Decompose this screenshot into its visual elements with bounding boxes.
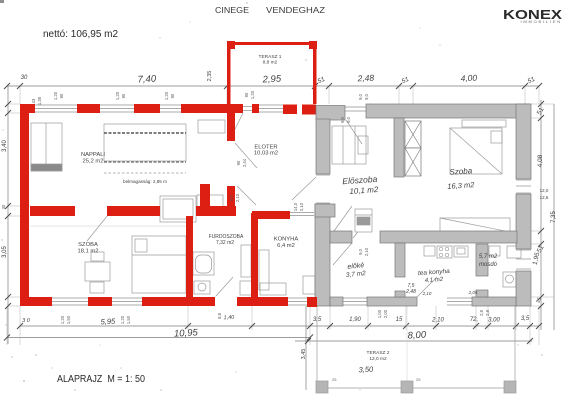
svg-text:IMMOBILIEN: IMMOBILIEN <box>520 19 562 24</box>
svg-text:9,0: 9,0 <box>358 248 363 254</box>
svg-text:1,20: 1,20 <box>250 90 255 99</box>
svg-text:10,03 m2: 10,03 m2 <box>254 151 278 157</box>
svg-text:2,10: 2,10 <box>431 318 444 324</box>
svg-text:1,50: 1,50 <box>126 315 131 324</box>
svg-text:7,35: 7,35 <box>551 211 557 223</box>
svg-text:8,8 m2: 8,8 m2 <box>263 60 278 66</box>
svg-text:3,5: 3,5 <box>521 316 530 322</box>
svg-text:9,0: 9,0 <box>358 93 363 99</box>
svg-text:18,1 m2: 18,1 m2 <box>78 249 99 255</box>
svg-text:1,20: 1,20 <box>60 315 65 324</box>
svg-text:1,50: 1,50 <box>66 315 71 324</box>
svg-text:SZOBA: SZOBA <box>78 242 98 248</box>
svg-text:2,8: 2,8 <box>485 309 490 315</box>
svg-text:90: 90 <box>244 92 249 97</box>
svg-text:9,0: 9,0 <box>229 194 234 200</box>
svg-text:2,48: 2,48 <box>356 73 374 84</box>
svg-text:4,08: 4,08 <box>537 154 544 167</box>
svg-text:1,00: 1,00 <box>377 309 382 318</box>
svg-text:VENDEGHAZ: VENDEGHAZ <box>266 6 325 15</box>
svg-text:1,20: 1,20 <box>164 91 169 100</box>
svg-text:4,00: 4,00 <box>460 73 477 84</box>
svg-text:2,35: 2,35 <box>207 71 213 82</box>
svg-text:CINEGE: CINEGE <box>215 6 249 15</box>
svg-text:2,10: 2,10 <box>422 291 432 296</box>
svg-text:TERASZ 2: TERASZ 2 <box>367 350 390 356</box>
svg-text:NAPPALI: NAPPALI <box>81 152 105 158</box>
svg-text:90: 90 <box>236 160 241 165</box>
svg-text:3,45: 3,45 <box>301 349 307 360</box>
svg-text:5,95: 5,95 <box>100 317 116 327</box>
svg-text:6,4 m2: 6,4 m2 <box>277 243 295 249</box>
svg-text:belmagasság: 2,85 m: belmagasság: 2,85 m <box>123 179 167 184</box>
svg-text:90: 90 <box>121 93 126 98</box>
svg-text:3,5: 3,5 <box>313 317 322 323</box>
svg-text:12,0 m2: 12,0 m2 <box>369 356 387 362</box>
svg-text:9,0: 9,0 <box>346 116 351 122</box>
svg-text:72,: 72, <box>470 317 478 323</box>
svg-text:12,0: 12,0 <box>540 188 549 193</box>
svg-text:1,20: 1,20 <box>120 315 125 324</box>
svg-text:2,8: 2,8 <box>479 309 484 315</box>
svg-text:25: 25 <box>416 377 421 382</box>
svg-text:2,10: 2,10 <box>235 193 240 202</box>
svg-text:ALAPRAJZ M = 1: 50: ALAPRAJZ M = 1: 50 <box>57 374 145 385</box>
svg-text:2,00: 2,00 <box>383 309 388 318</box>
svg-text:14,0: 14,0 <box>293 202 298 211</box>
svg-text:90: 90 <box>170 93 175 98</box>
svg-text:Szoba: Szoba <box>449 166 473 177</box>
svg-text:1,20: 1,20 <box>115 91 120 100</box>
svg-text:2,48: 2,48 <box>405 289 416 295</box>
svg-text:43: 43 <box>31 98 36 103</box>
svg-text:12,6: 12,6 <box>540 195 549 200</box>
svg-text:9,0: 9,0 <box>364 93 369 99</box>
svg-text:8,00: 8,00 <box>407 329 427 341</box>
svg-text:3 0: 3 0 <box>22 318 31 324</box>
svg-text:1,90: 1,90 <box>349 317 361 323</box>
svg-text:90: 90 <box>59 93 64 98</box>
svg-text:15: 15 <box>396 317 403 323</box>
svg-text:2,95: 2,95 <box>261 73 282 85</box>
svg-text:1,20: 1,20 <box>53 91 58 100</box>
svg-text:3,50: 3,50 <box>358 365 374 375</box>
svg-text:25: 25 <box>332 377 337 382</box>
svg-text:KONYHA: KONYHA <box>274 237 299 243</box>
svg-text:3,40: 3,40 <box>2 140 8 152</box>
svg-text:10,95: 10,95 <box>174 327 199 339</box>
svg-text:nettó: 106,95 m2: nettó: 106,95 m2 <box>43 29 118 40</box>
svg-text:30: 30 <box>21 75 28 81</box>
svg-text:3,00: 3,00 <box>488 318 500 324</box>
svg-text:TERASZ 1: TERASZ 1 <box>259 54 282 60</box>
svg-text:2,05: 2,05 <box>468 290 478 295</box>
svg-text:2,44: 2,44 <box>242 158 247 167</box>
svg-text:7,32 m2: 7,32 m2 <box>216 240 234 246</box>
svg-text:8,8: 8,8 <box>217 312 222 318</box>
svg-text:5,7 m2: 5,7 m2 <box>479 254 498 260</box>
svg-text:mosdó: mosdó <box>479 262 498 268</box>
svg-text:1,40: 1,40 <box>223 315 235 322</box>
svg-text:2,10: 2,10 <box>364 247 369 256</box>
svg-text:9,0: 9,0 <box>340 116 345 122</box>
svg-text:2,10: 2,10 <box>299 202 304 211</box>
svg-text:1,35: 1,35 <box>37 96 42 105</box>
svg-text:30: 30 <box>1 204 6 209</box>
svg-text:25,2 m2: 25,2 m2 <box>83 159 104 165</box>
svg-text:7,40: 7,40 <box>137 73 157 85</box>
svg-text:3,05: 3,05 <box>2 246 8 258</box>
